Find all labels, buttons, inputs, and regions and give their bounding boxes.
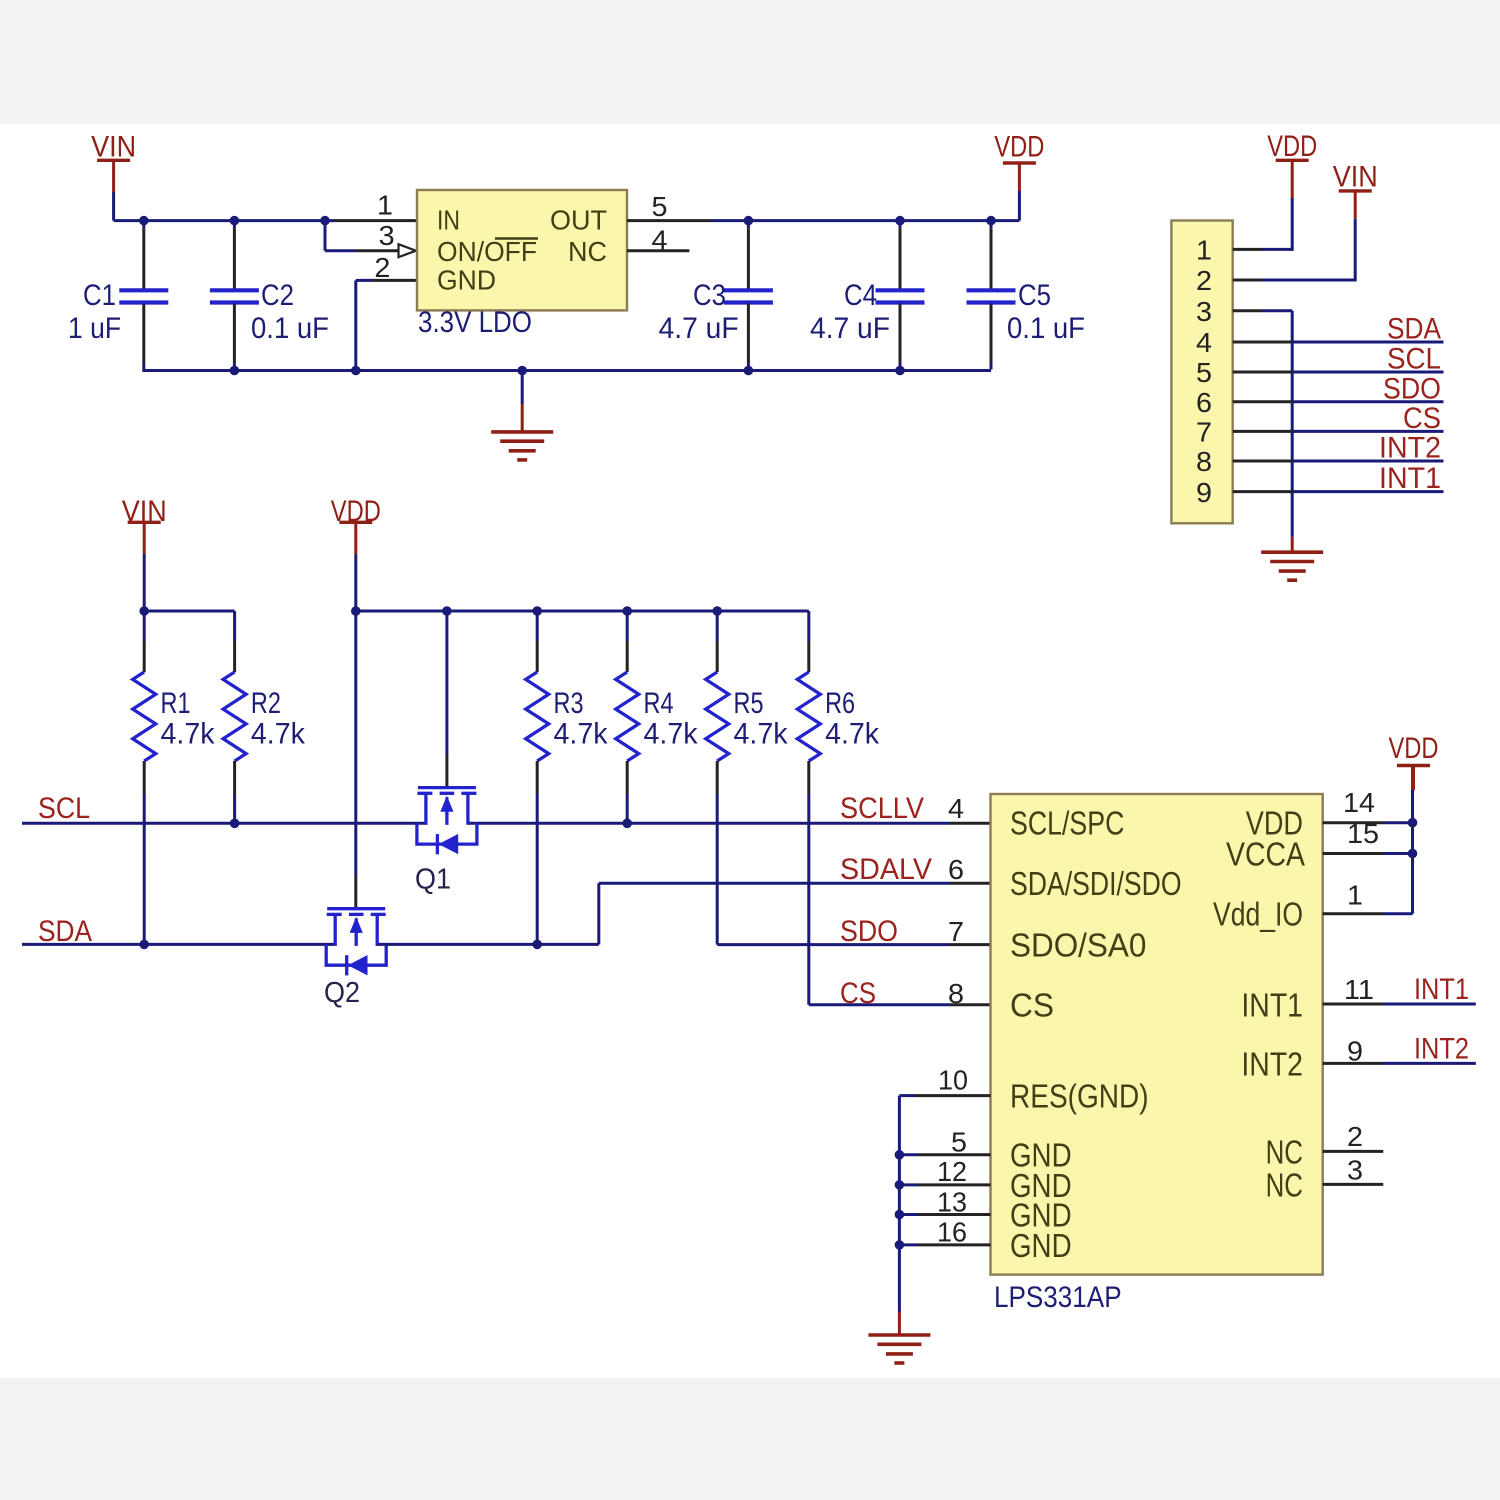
svg-text:SDA/SDI/SDO: SDA/SDI/SDO (1010, 865, 1182, 902)
svg-text:CS: CS (840, 977, 876, 1010)
capacitor C4 (876, 222, 925, 370)
wire net INT1 (connector) (1292, 490, 1443, 493)
wire INT2 net (1323, 1062, 1383, 1065)
svg-text:IN: IN (437, 205, 460, 236)
wire connector pin9 stub (1233, 490, 1293, 493)
wire connector pin3 stub (1233, 309, 1262, 312)
svg-text:7: 7 (1196, 417, 1212, 448)
wire net INT2 (connector) (1292, 460, 1443, 463)
svg-text:C1: C1 (83, 279, 116, 312)
svg-text:3: 3 (379, 220, 395, 251)
svg-text:VDD: VDD (1389, 732, 1439, 765)
svg-text:INT2: INT2 (1414, 1033, 1469, 1066)
svg-text:C4: C4 (844, 279, 877, 312)
svg-text:7: 7 (948, 916, 964, 947)
junction dot C3 bottom (744, 366, 754, 376)
svg-text:13: 13 (937, 1187, 967, 1218)
power flag VDD (IC) (1389, 732, 1439, 790)
svg-text:14: 14 (1343, 787, 1375, 818)
wire net SDA (connector) (1292, 341, 1443, 344)
svg-text:SDO: SDO (1383, 372, 1441, 405)
wire GND pin13 stub (918, 1213, 991, 1216)
power flag VIN (connector) (1333, 161, 1378, 219)
junction dot C3 top (744, 216, 754, 226)
svg-text:CS: CS (1010, 987, 1054, 1024)
svg-text:INT1: INT1 (1379, 462, 1441, 495)
wire VDD pin14 stub (1323, 821, 1383, 824)
top gray band (0, 0, 1500, 124)
wire VCCA pin15 stub (1323, 852, 1383, 855)
junction dot C2 top (230, 216, 240, 226)
wire Q1 gate vertical (445, 611, 448, 755)
capacitor C1 (119, 222, 168, 370)
resistor R2 (223, 640, 246, 823)
svg-text:R1: R1 (161, 687, 191, 720)
svg-text:3: 3 (1196, 296, 1212, 327)
svg-text:16: 16 (937, 1217, 967, 1248)
wire SCL bus left (22, 822, 426, 825)
ground (below LDO) (491, 432, 553, 460)
junction dot gnd drop (517, 366, 527, 376)
svg-text:2: 2 (1347, 1121, 1363, 1152)
wire pin2 stub (372, 279, 417, 282)
svg-text:8: 8 (1196, 446, 1212, 477)
svg-text:SDO/SA0: SDO/SA0 (1010, 927, 1146, 964)
junction dot R1 bottom (139, 940, 149, 950)
svg-text:Q2: Q2 (324, 977, 360, 1009)
wire SDO pin stub (950, 943, 991, 946)
svg-text:OUT: OUT (550, 205, 607, 236)
wire connector pin4 stub (1233, 341, 1293, 344)
svg-text:Q1: Q1 (415, 864, 451, 896)
svg-text:4.7k: 4.7k (644, 718, 699, 751)
svg-text:5: 5 (652, 191, 668, 222)
svg-text:INT2: INT2 (1379, 432, 1441, 465)
svg-text:R5: R5 (734, 687, 764, 720)
capacitor C2 (210, 222, 259, 370)
junction dot GND pin13 (895, 1210, 905, 1220)
svg-text:5: 5 (1196, 357, 1212, 388)
svg-text:11: 11 (1344, 974, 1374, 1005)
power flag VIN (top left) (91, 131, 136, 221)
power flag VIN (middle) (122, 495, 167, 611)
svg-text:1: 1 (1196, 235, 1212, 266)
IC U2 LPS331AP box (991, 794, 1323, 1275)
junction dot VDD rail (351, 606, 361, 616)
junction dot C4 top (895, 216, 905, 226)
svg-text:6: 6 (1196, 387, 1212, 418)
svg-text:VIN: VIN (1333, 161, 1378, 194)
svg-text:4.7 uF: 4.7 uF (810, 312, 890, 345)
wire RES pin10 stub (915, 1094, 991, 1097)
wire VIN bus top (node VIN) (114, 219, 334, 222)
op-amp U1 3.3V LDO box (417, 190, 627, 310)
wire NC pin2 stub (1323, 1150, 1384, 1153)
wire SDALV pin stub (950, 882, 991, 885)
svg-text:1: 1 (1347, 880, 1363, 911)
svg-text:RES(GND): RES(GND) (1010, 1078, 1149, 1115)
wire INT1 net (1323, 1003, 1383, 1006)
wire pin2 to gnd bus horiz (356, 279, 372, 282)
svg-text:INT1: INT1 (1241, 987, 1303, 1024)
junction dot C5 top (986, 216, 996, 226)
wire CS pin stub (950, 1003, 991, 1006)
resistor R4 (616, 611, 639, 823)
junction dot R5 top (712, 606, 722, 616)
svg-text:9: 9 (1347, 1036, 1363, 1067)
svg-text:3.3V LDO: 3.3V LDO (418, 306, 532, 339)
wire GND pin16 stub (918, 1243, 991, 1246)
wire Vdd_IO pin1 stub (1323, 912, 1383, 915)
junction dot VDD pin14 (1408, 818, 1418, 828)
wire gnd drop vertical (521, 371, 524, 405)
wire connector pin5 stub (1233, 371, 1293, 374)
wire CS horizontal (809, 1003, 950, 1006)
wire connector pin1 stub (1233, 248, 1262, 251)
svg-text:4: 4 (1196, 327, 1212, 358)
bottom gray band (0, 1378, 1500, 1500)
wire net SCL (connector) (1292, 371, 1443, 374)
wire VIN rail to R2 (144, 610, 234, 613)
junction dot VIN rail (139, 606, 149, 616)
wire connector pin2 stub (1233, 279, 1262, 282)
svg-text:2: 2 (1196, 265, 1212, 296)
svg-text:0.1 uF: 0.1 uF (251, 312, 329, 345)
svg-text:2: 2 (374, 252, 390, 283)
svg-text:1: 1 (377, 190, 393, 221)
wire VDD to Q2 gate (354, 611, 357, 876)
svg-text:4.7k: 4.7k (825, 718, 880, 751)
transistor Q1 (417, 788, 477, 855)
wire SDO horizontal (717, 943, 950, 946)
wire connector pin2 to VIN (1262, 279, 1355, 282)
connector J1 box (1171, 221, 1232, 524)
svg-text:8: 8 (948, 978, 964, 1009)
wire connector pin1 to VDD (1262, 248, 1292, 251)
transistor Q2 (326, 909, 386, 976)
wire pin1 stub (334, 219, 417, 222)
svg-text:VDD: VDD (994, 131, 1044, 164)
LDO ON/OFF overbar (495, 237, 538, 240)
junction dot R2 bottom (230, 819, 240, 829)
resistor R5 (706, 611, 729, 945)
svg-text:ON/OFF: ON/OFF (437, 236, 537, 267)
wire GND vertical (IC) (898, 1096, 901, 1312)
junction dot GND pin5 (895, 1150, 905, 1160)
junction dot R4 top (622, 606, 632, 616)
wire SDALV riser (597, 883, 600, 944)
svg-text:C3: C3 (693, 279, 726, 312)
wire pin4 stub NC (627, 249, 689, 252)
power flag VDD (top) (994, 131, 1044, 221)
svg-text:4.7k: 4.7k (161, 718, 216, 751)
svg-text:4.7k: 4.7k (554, 718, 609, 751)
wire pin3 stub (356, 249, 399, 252)
svg-text:CS: CS (1403, 402, 1441, 435)
svg-text:VDD: VDD (1267, 130, 1317, 163)
resistor R3 (526, 611, 549, 944)
svg-text:12: 12 (937, 1156, 967, 1187)
wire GND pin5 stub (918, 1153, 991, 1156)
svg-text:SCL: SCL (1387, 343, 1441, 376)
svg-text:R4: R4 (644, 687, 674, 720)
power flag VDD (middle) (331, 495, 381, 611)
wire VDD rail (356, 610, 809, 613)
wire connector pin8 stub (1233, 460, 1293, 463)
junction dot R4 bottom (622, 819, 632, 829)
svg-text:4.7k: 4.7k (251, 718, 306, 751)
wire connector pin6 stub (1233, 400, 1293, 403)
junction dot Q1 gate (442, 606, 452, 616)
svg-text:1 uF: 1 uF (68, 312, 121, 345)
wire pin5 stub (627, 219, 712, 222)
junction dot GND pin16 (895, 1240, 905, 1250)
wire ON/OFF branch horizontal (325, 249, 356, 252)
svg-text:4.7k: 4.7k (734, 718, 789, 751)
svg-text:R3: R3 (554, 687, 584, 720)
svg-text:4.7 uF: 4.7 uF (659, 312, 739, 345)
wire VDD bus top (node VDD) (712, 219, 1019, 222)
junction dot LDO gnd bottom (351, 366, 361, 376)
wire net SDO (connector) (1292, 400, 1443, 403)
svg-text:INT2: INT2 (1241, 1046, 1303, 1083)
wire VDD vertical (IC) (1411, 790, 1414, 914)
wire SCL bus right of Q1 (SCLLV) (468, 822, 950, 825)
svg-text:C5: C5 (1018, 279, 1051, 312)
svg-text:10: 10 (938, 1065, 968, 1096)
junction dot GND pin12 (895, 1180, 905, 1190)
wire ground bus bottom (node GND) (144, 369, 991, 372)
wire ON/OFF branch vertical (324, 221, 327, 251)
capacitor C5 (967, 222, 1016, 370)
svg-text:9: 9 (1196, 477, 1212, 508)
power flag VDD (connector) (1267, 130, 1317, 198)
svg-text:4: 4 (948, 793, 964, 824)
junction dot ON/OFF branch (320, 216, 330, 226)
svg-text:LPS331AP: LPS331AP (994, 1281, 1122, 1314)
svg-text:R2: R2 (251, 687, 281, 720)
wire GND pin12 stub (918, 1183, 991, 1186)
junction dot C4 bottom (895, 366, 905, 376)
svg-text:GND: GND (437, 265, 496, 296)
wire net CS (connector) (1292, 430, 1443, 433)
svg-text:VIN: VIN (91, 131, 136, 164)
wire connector pin3 to gnd (1262, 309, 1292, 312)
wire pin2 vertical (354, 280, 357, 370)
svg-text:INT1: INT1 (1414, 973, 1469, 1006)
wire SDA bus right of Q2 (SDALV) (377, 943, 599, 946)
capacitor C3 (724, 222, 773, 370)
ground (below IC) (868, 1335, 930, 1363)
svg-text:SDA: SDA (1387, 313, 1441, 346)
junction dot R3 bottom (532, 940, 542, 950)
wire NC pin3 stub (1323, 1183, 1384, 1186)
wire C1 bus left corner (142, 369, 145, 372)
pin 3 input triangle (399, 244, 417, 257)
ground (below connector) (1261, 552, 1323, 580)
wire SDA bus left (22, 943, 335, 946)
svg-text:R6: R6 (825, 687, 855, 720)
svg-text:SCL/SPC: SCL/SPC (1010, 805, 1124, 842)
junction dot C2 bottom (230, 366, 240, 376)
svg-text:GND: GND (1010, 1227, 1072, 1264)
resistor R6 (797, 611, 820, 1005)
svg-text:0.1 uF: 0.1 uF (1007, 312, 1085, 345)
svg-text:SCLLV: SCLLV (840, 792, 924, 825)
svg-text:5: 5 (951, 1127, 967, 1158)
svg-text:15: 15 (1347, 818, 1379, 849)
junction dot R3 top (532, 606, 542, 616)
svg-text:VCCA: VCCA (1226, 836, 1305, 873)
svg-text:SDALV: SDALV (840, 853, 932, 886)
svg-text:NC: NC (568, 236, 607, 267)
svg-text:NC: NC (1266, 1167, 1303, 1204)
svg-text:6: 6 (948, 854, 964, 885)
svg-text:4: 4 (652, 225, 668, 256)
junction dot C1 top (139, 216, 149, 226)
junction dot VCCA pin15 (1408, 849, 1418, 859)
resistor R1 (133, 611, 156, 944)
svg-text:SCL: SCL (38, 792, 90, 825)
svg-text:SDO: SDO (840, 915, 898, 948)
wire SCLLV pin stub (950, 822, 991, 825)
svg-text:3: 3 (1347, 1155, 1363, 1186)
svg-text:NC: NC (1266, 1134, 1303, 1171)
wire connector pin7 stub (1233, 430, 1293, 433)
svg-text:Vdd_IO: Vdd_IO (1213, 896, 1303, 933)
svg-text:C2: C2 (261, 279, 294, 312)
wire SDALV horizontal (599, 882, 950, 885)
